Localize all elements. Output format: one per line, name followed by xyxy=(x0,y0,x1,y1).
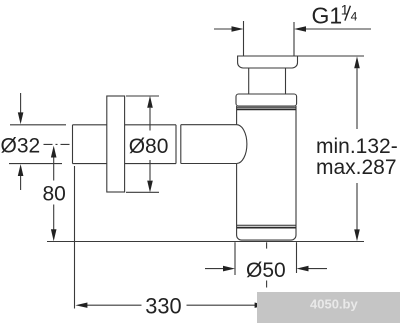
svg-text:G1: G1 xyxy=(312,3,343,29)
svg-text:4: 4 xyxy=(351,9,358,23)
svg-text:Ø50: Ø50 xyxy=(246,259,286,282)
svg-text:min.132-: min.132- xyxy=(316,135,398,158)
svg-text:330: 330 xyxy=(145,293,181,318)
svg-text:max.287: max.287 xyxy=(316,156,397,179)
svg-text:Ø32: Ø32 xyxy=(1,135,41,158)
svg-text:80: 80 xyxy=(43,183,66,206)
svg-text:Ø80: Ø80 xyxy=(129,135,169,158)
svg-text:4050.by: 4050.by xyxy=(310,297,358,312)
